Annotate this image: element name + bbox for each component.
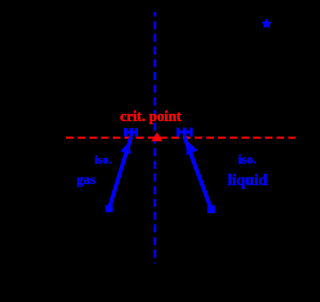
wire: left blue quench trajectory line (gas side)	[110, 137, 132, 207]
svg-text:crit. point: crit. point	[120, 109, 181, 125]
node: right blue x-error-bar marker (liquid side endpoint)	[177, 128, 193, 137]
wire: red dashed critical-temperature horizontal line	[66, 137, 295, 139]
svg-text:iso.: iso.	[238, 151, 256, 166]
svg-text:iso.: iso.	[95, 152, 112, 166]
svg-text:gas: gas	[77, 172, 96, 187]
node: left blue square marker (gas start state)	[106, 205, 113, 212]
node: blue star marker top right	[262, 19, 272, 28]
node: right blue square marker (liquid start state)	[207, 205, 215, 213]
svg-text:liquid: liquid	[228, 172, 268, 189]
node: left arrowhead pointing up toward critical line	[120, 142, 130, 155]
node: right arrowhead pointing up toward critical line	[186, 141, 198, 156]
node: left blue x-error-bar marker (gas side endpoint)	[124, 128, 138, 137]
wire: right blue quench trajectory line (liquid side)	[185, 137, 212, 209]
node: red critical point triangle marker	[151, 132, 162, 141]
wire: blue dashed vertical critical-isochore line	[154, 12, 157, 264]
